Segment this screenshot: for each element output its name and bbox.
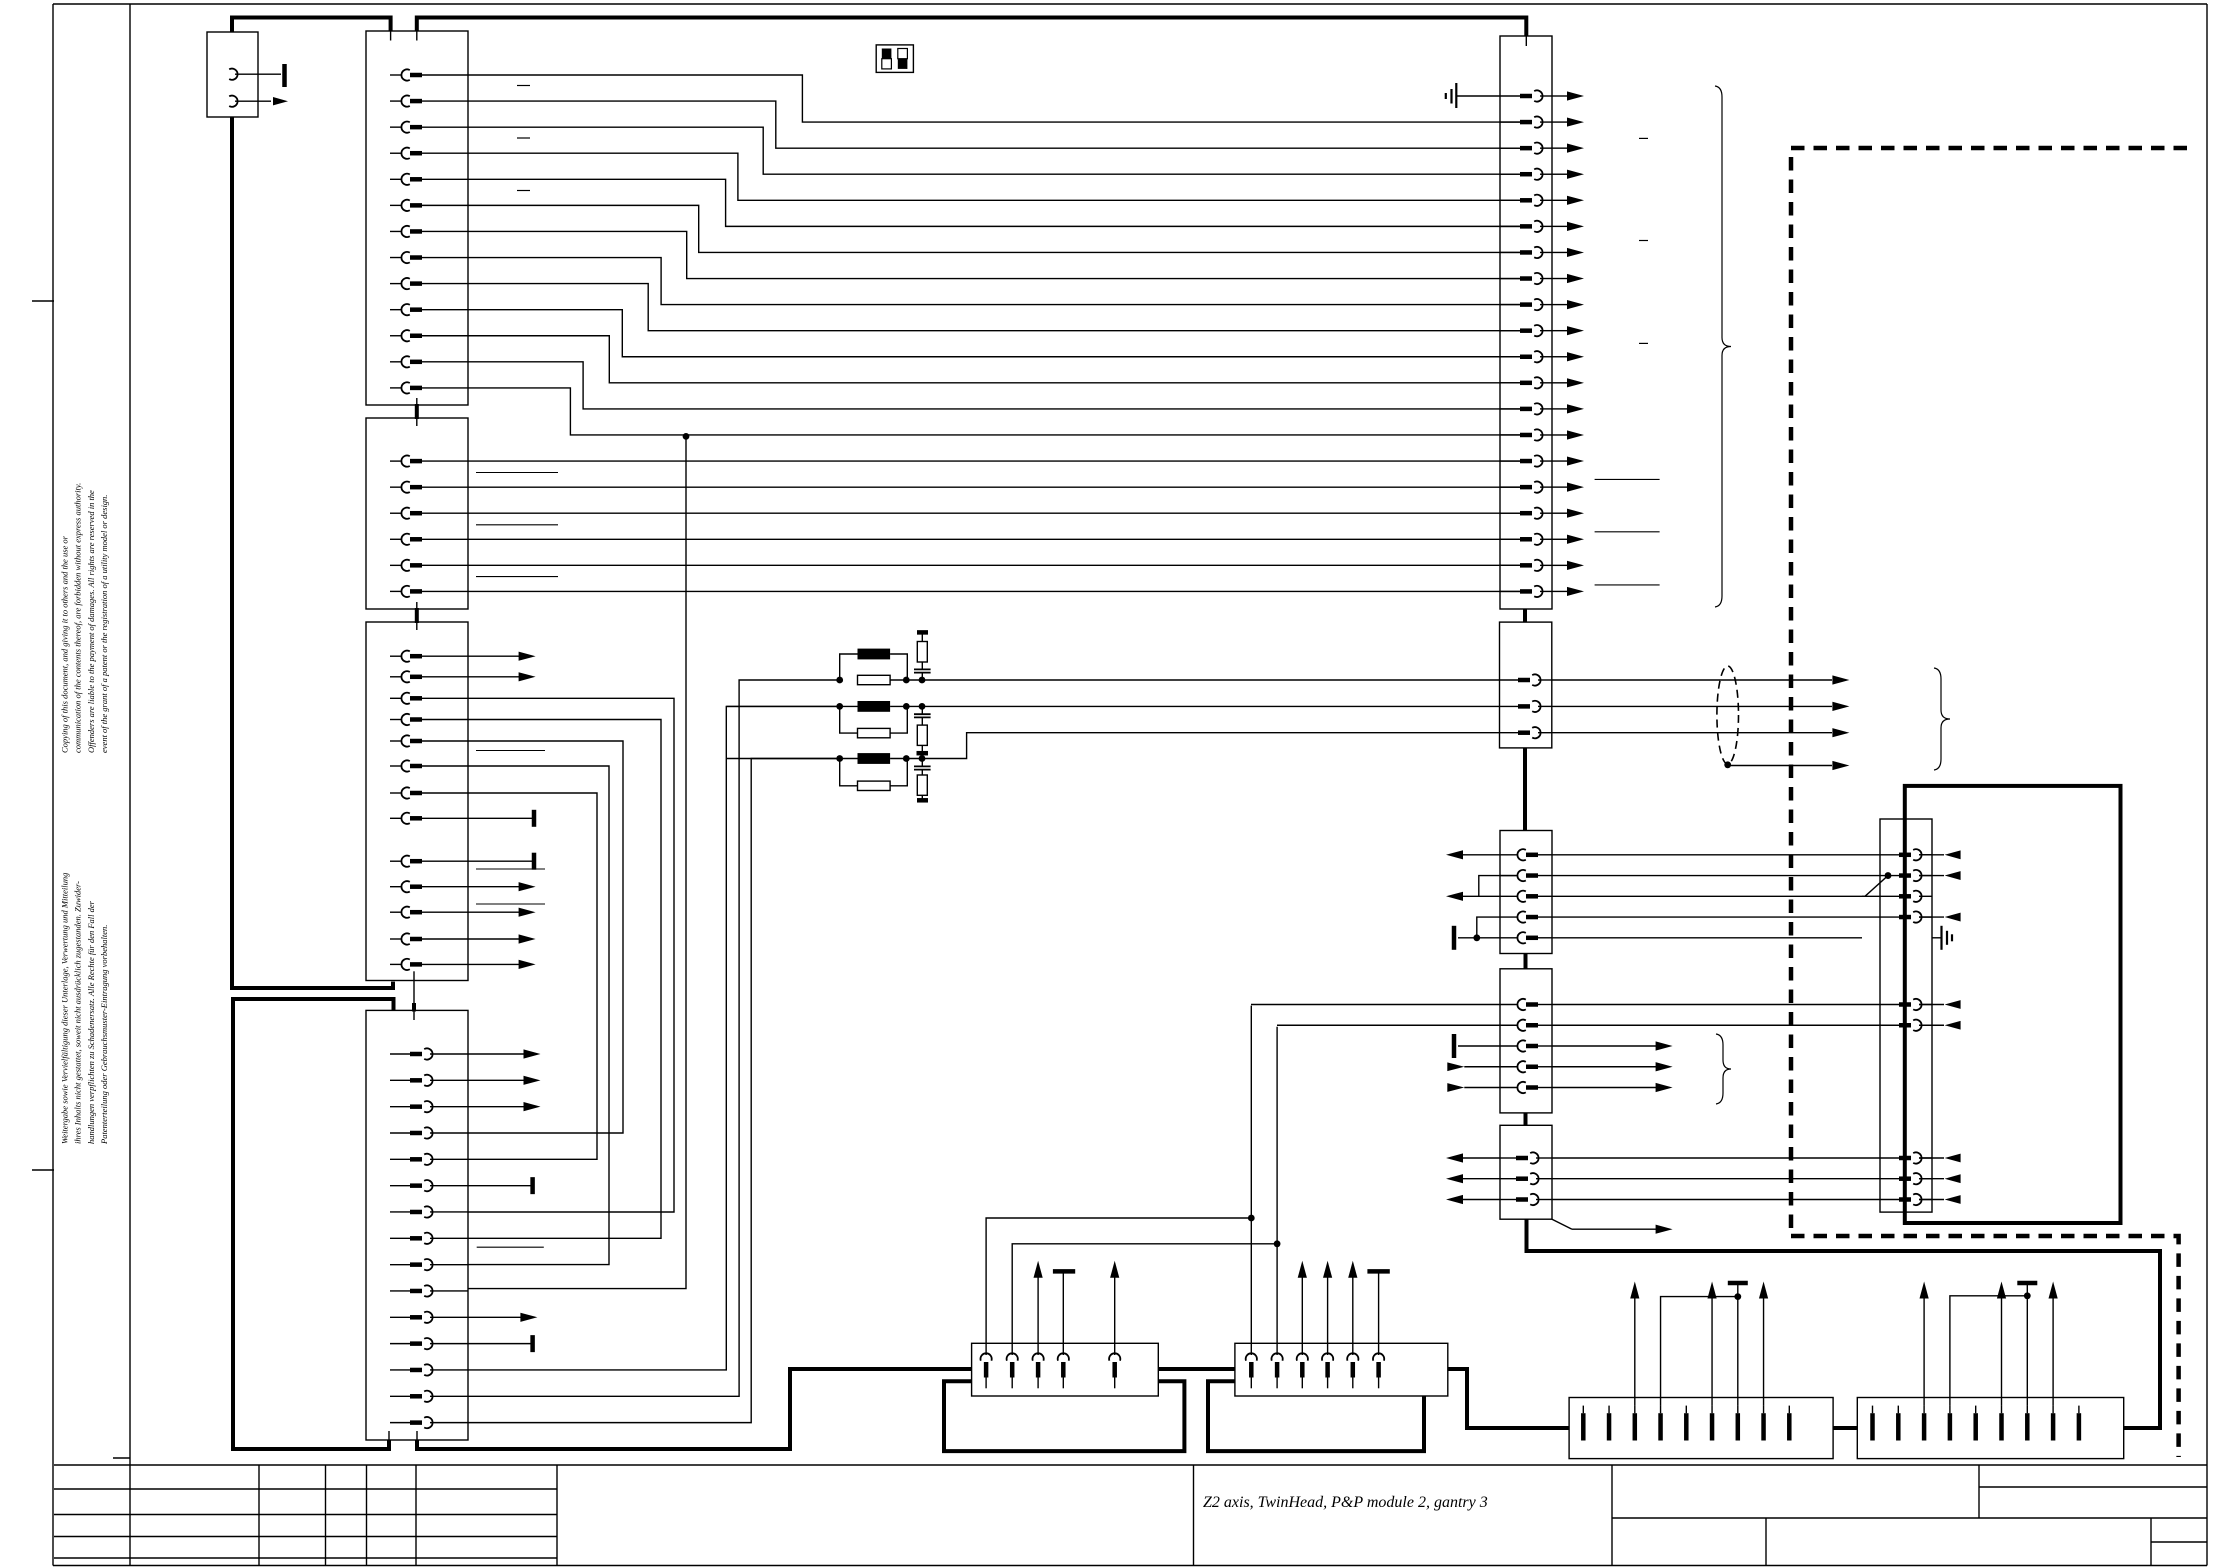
svg-text:ihres Inhalts nicht gestattet,: ihres Inhalts nicht gestattet, soweit ni… (73, 881, 83, 1144)
connector K2 pins 1-6 (390, 456, 468, 597)
device A3 body (thick) (1905, 786, 2121, 1223)
connector X31 pins 1-5 (1500, 999, 1552, 1093)
cable brace X20 (1715, 86, 1731, 607)
wire X30 pin5 to ground row (1454, 917, 1862, 950)
dashed boundary bottom (1791, 1236, 2179, 1457)
K3 pin3 wire to K4 pin7 (468, 698, 674, 1212)
wire X51 pin8 arrow up (2049, 1282, 2058, 1406)
K3 pins1-2 arrows (468, 652, 536, 682)
wire X31 pin4 arrow-in (1447, 1062, 1672, 1071)
shield housing X40 (thick) (944, 1381, 1184, 1451)
wire X50 pin3 arrow up (1630, 1282, 1639, 1406)
connector X32 pins 1-3 (1500, 1152, 1552, 1205)
PE run X51 up to device A3 (1527, 1219, 2161, 1428)
K4 pins1-3 arrows (468, 1049, 541, 1111)
E1 pin 1 with terminal bar (229, 64, 284, 87)
K3 pin6 wire to K4 pin9 (468, 766, 609, 1265)
connector K3 pins 1-13 (390, 651, 468, 970)
K3 pin4 wire to K4 pin8 (468, 720, 661, 1239)
connector K4 body (366, 1010, 468, 1440)
connector X41 body (1235, 1343, 1448, 1396)
dashed boundary top (1791, 148, 2187, 1236)
copyright notice german (rotated) (60, 873, 110, 1145)
wire X40 pin1 up-over (986, 1215, 1255, 1355)
PE stub K1-K2 (416, 398, 418, 426)
wire X30 pin4 (1552, 916, 1862, 918)
svg-text:Offenders are liable to the pa: Offenders are liable to the payment of d… (86, 490, 96, 753)
PE bus top-right run (to X20) (417, 18, 1527, 37)
svg-text:event of the grant of a patent: event of the grant of a patent or the re… (99, 495, 109, 753)
wire X51 pin7 terminal (2017, 1283, 2037, 1406)
connector K2 body (366, 418, 468, 609)
wire X31 pin5 arrow-in (1447, 1083, 1672, 1092)
PE stub K3-K4 (413, 971, 415, 1020)
connector X40 body (972, 1343, 1159, 1396)
filter ch2 RC chain (914, 706, 931, 753)
connector X31 body (1500, 969, 1552, 1113)
PE bus left drop (below E1) (232, 117, 393, 988)
connector K3 body (366, 622, 468, 981)
connector X50 body (1569, 1398, 1833, 1459)
wire X51 pin3 arrow up (1920, 1282, 1929, 1406)
connector X32 body (1500, 1125, 1552, 1219)
connector K4 pins 1-15 (390, 1048, 468, 1428)
K4 pin12 terminal (468, 1335, 533, 1352)
title block table (54, 1465, 2207, 1566)
svg-text:Copying of this document, and: Copying of this document, and giving it … (60, 535, 70, 753)
filter ch3 RC chain (914, 759, 931, 801)
PE stub X20-X21 (1523, 609, 1527, 622)
wires X21 through cable W2 with arrows (1552, 675, 1849, 737)
wire labels K1 (517, 86, 530, 191)
K3 pin5 wire to K4 pin4 (468, 741, 623, 1133)
PE link X40-X41 (1158, 1367, 1235, 1371)
wire X31 pin1 long (1251, 1004, 1862, 1006)
K4 pin6 terminal (468, 1177, 533, 1194)
K1 top feed stubs (391, 31, 417, 41)
cable brace W2 (1934, 668, 1950, 770)
wire X41 pin6 terminal (1367, 1271, 1389, 1355)
PE stub K2-K3 (416, 602, 418, 630)
connector X20 body (1500, 36, 1552, 609)
X20 output arrows (1552, 91, 1584, 596)
wires X32 pins with left arrows (1446, 1153, 1862, 1204)
wire X50 pin7 terminal (1728, 1283, 1748, 1406)
frame tick y=1170 (32, 1169, 54, 1171)
device ground symbol (1932, 926, 1952, 950)
connector X21 pins 1-3 (1518, 674, 1552, 738)
PE stub X21 down to X30 (1523, 748, 1527, 831)
connector X41 pins (1246, 1353, 1385, 1388)
connector X21 body (1500, 622, 1552, 748)
svg-text:Weitergabe sowie Vervielfältig: Weitergabe sowie Vervielfältigung dieser… (60, 873, 70, 1144)
wire X40 pin2 up-over (1012, 1240, 1280, 1355)
PE bus bottom run (K4 to X40) (417, 1369, 972, 1449)
K3 pin7 wire to K4 pin5 (468, 793, 597, 1159)
K4 pin11 arrow (468, 1313, 537, 1322)
wire X40 pin4 terminal (1053, 1271, 1075, 1355)
wires K1 pins to X20 pins 2-14 (468, 75, 1520, 435)
K3 pin9 terminal (468, 853, 534, 870)
frame inner divider (129, 4, 131, 1566)
wire X50 pin4 jumper (1661, 1293, 1742, 1405)
wire X51 pin6 arrow up (1997, 1282, 2006, 1406)
wire X50 pin6 arrow up (1707, 1282, 1716, 1406)
riser X31p1 to X41 pin1 (1250, 1006, 1252, 1355)
PE run X41 to X50 (1448, 1369, 1569, 1428)
X35 arrows into device (1919, 850, 1961, 1204)
wire X31 pin2 long (1277, 1024, 1862, 1026)
wire X30 pin3 w/ left arrow and diagonal (1446, 876, 1888, 901)
wire K4 pin13 to filter ch2 (468, 706, 840, 1370)
filter ch1 RC chain (R+C to terminal) (914, 632, 931, 680)
K3 pin8 terminal (468, 810, 534, 827)
K4 bottom feed stubs (389, 1431, 417, 1440)
frame tick above title (113, 1457, 130, 1459)
wire K4 pin15 to filter ch3 (468, 759, 840, 1423)
wires K2 pins to X20 pins 15-20 (468, 461, 1520, 591)
svg-text:Z2 axis, TwinHead, P&P module: Z2 axis, TwinHead, P&P module 2, gantry … (1203, 1494, 1488, 1511)
frame tick y=301 (32, 300, 54, 302)
riser X31p2 to X41 pin2 (1276, 1027, 1278, 1355)
connector X51 body (1857, 1398, 2123, 1459)
wire labels X20 bottom (1595, 479, 1660, 585)
connector X30 pins 1-5 (1500, 849, 1552, 943)
DIP switch S1 (876, 45, 913, 73)
X20 top feed stub (1525, 36, 1527, 46)
brace X31 outputs (1716, 1034, 1731, 1104)
input box E1 (207, 32, 258, 117)
wire label K4 (477, 1246, 544, 1248)
wire X30 pin2 with jumper (1479, 872, 1892, 896)
connector X40 pins (981, 1353, 1121, 1388)
filter channel 2 (black/white pair) (726, 701, 1520, 738)
wire labels K3 (476, 751, 545, 905)
cable shield junction (1724, 761, 1849, 770)
X32 annotation arrow (1552, 1219, 1673, 1234)
copyright notice english (rotated) (60, 483, 110, 753)
cable symbol W2 (1717, 666, 1739, 764)
feedback wire X20 pin14 to K4 pin10 (468, 436, 686, 1288)
wire X30 pin1 w/ left arrow (1446, 850, 1862, 859)
PE stub X30-X31 (1524, 954, 1528, 969)
connector X51 pins (1873, 1406, 2079, 1441)
E1 pin 2 with arrow (229, 96, 288, 107)
connector X50 pins (1583, 1406, 1789, 1441)
connector X20 pins 1-20 (1500, 90, 1552, 597)
connector X35 body (1880, 819, 1932, 1212)
ground symbol at X20 pin1 (1446, 83, 1500, 108)
connector X30 body (1500, 831, 1552, 954)
wire X40 pin5 arrow up (1110, 1261, 1119, 1355)
connector X35 pins (1862, 849, 1932, 1205)
wire labels X20 top (1639, 138, 1648, 343)
svg-text:handlungen verpflichten zu Sch: handlungen verpflichten zu Schadenersatz… (86, 900, 96, 1144)
PE bus left lower run (to K4 top) (233, 999, 394, 1449)
svg-text:communication of the contents: communication of the contents thereof, a… (73, 483, 83, 753)
PE stub X31-X32 (1524, 1113, 1528, 1125)
shield housing X41 (thick) (1208, 1381, 1424, 1451)
wire X51 pin4 jumper (1950, 1292, 2031, 1405)
wires X41 pins3-5 arrows up (1298, 1261, 1358, 1355)
filter channel 3 (black/white pair) (726, 733, 1520, 791)
title text (1203, 1494, 1488, 1511)
filter channel 1 (black/white pair) (836, 649, 1520, 685)
connector K1 pins 1-13 (390, 69, 468, 393)
PE link X50-X51 (1833, 1426, 1857, 1430)
wire X31 pin3 terminal (1454, 1034, 1673, 1058)
junction node row14 (683, 433, 690, 440)
svg-text:Patenterteilung oder Gebrauchs: Patenterteilung oder Gebrauchsmuster-Ein… (99, 925, 109, 1145)
wire K4 pin14 to filter ch1 (468, 680, 840, 1396)
K3 pins10-13 arrows (468, 882, 536, 969)
wire X40 pin3 arrow up (1034, 1261, 1043, 1355)
PE bus top-left L (to connector K1) (232, 18, 391, 32)
connector K1 body (366, 31, 468, 405)
wire X50 pin8 arrow up (1759, 1282, 1768, 1406)
wire labels K2 (476, 473, 558, 577)
